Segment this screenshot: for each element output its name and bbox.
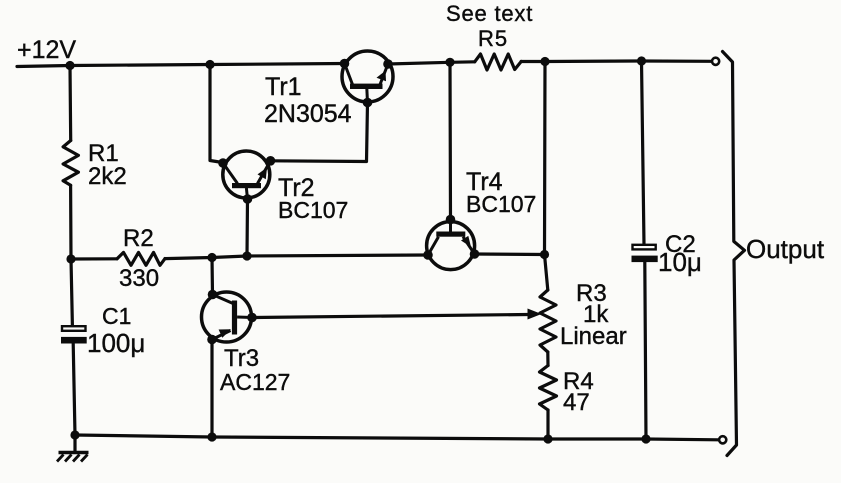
transistor Tr3 AC127 bbox=[202, 292, 253, 342]
svg-text:Tr1: Tr1 bbox=[265, 73, 302, 101]
wire Tr1 base down and left to Tr2 emitter bbox=[271, 103, 368, 162]
transistor Tr2 BC107 bbox=[223, 151, 271, 199]
wire R1 bottom to R2 node bbox=[69, 185, 73, 259]
node rail / C2 bbox=[637, 56, 646, 65]
node Tr4 base bbox=[446, 215, 456, 225]
node Tr2 emitter bbox=[266, 156, 276, 166]
node Tr4 emitter bbox=[470, 249, 480, 259]
wire R5 right junction down to Tr4 emitter node bbox=[543, 62, 547, 255]
wire R3 bottom to R4 top bbox=[546, 352, 549, 366]
wire output bracket right side bbox=[723, 52, 745, 456]
wire Tr3 emitter down to bottom rail bbox=[210, 340, 213, 438]
wire top rail right section (Tr1 emitter to R5) bbox=[388, 62, 475, 64]
svg-text:See text: See text bbox=[446, 1, 533, 26]
wire left vertical +12V to R1 bbox=[68, 66, 72, 141]
output terminal top bbox=[712, 58, 719, 65]
node R2 / Tr3 bbox=[207, 253, 216, 262]
wire R5 right to output terminal bbox=[521, 59, 711, 63]
svg-text:+12V: +12V bbox=[17, 36, 76, 64]
svg-text:330: 330 bbox=[119, 265, 159, 292]
node R3 top bbox=[540, 250, 549, 259]
resistor R5 bbox=[475, 54, 522, 70]
node bottom / Tr3 bbox=[207, 432, 216, 441]
node Tr4 collector bbox=[423, 250, 433, 260]
svg-text:47: 47 bbox=[563, 389, 590, 416]
wire ground stub bbox=[73, 435, 76, 452]
capacitor C2 bbox=[632, 245, 658, 262]
svg-text:AC127: AC127 bbox=[220, 369, 290, 395]
node R5 right bbox=[540, 57, 549, 66]
node Tr3 emitter bbox=[207, 335, 217, 345]
svg-text:Linear: Linear bbox=[560, 323, 627, 350]
transistor Tr4 BC107 bbox=[427, 220, 475, 270]
node Tr3 collector bbox=[208, 290, 218, 300]
resistor R1 bbox=[63, 141, 78, 186]
ground symbol bbox=[57, 453, 89, 462]
wire bottom rail bbox=[75, 435, 718, 440]
wire +12V top rail left section bbox=[17, 64, 345, 67]
node bottom / R4 bbox=[543, 434, 552, 443]
node Tr2 collector bbox=[218, 158, 228, 168]
node Tr1 collector bbox=[340, 59, 350, 69]
node R2 / Tr2 base bbox=[242, 251, 251, 260]
wire C1 bottom to ground rail bbox=[73, 344, 75, 436]
transistor Tr1 2N3054 bbox=[342, 51, 393, 103]
svg-text:R2: R2 bbox=[123, 225, 154, 252]
resistor R3 potentiometer body bbox=[540, 290, 556, 352]
wire rail junction down to Tr4 base bbox=[448, 62, 452, 219]
node Tr1 emitter bbox=[383, 59, 393, 69]
R3 wiper arrowhead bbox=[528, 309, 542, 320]
wire Tr3 base to R3 wiper bbox=[252, 315, 528, 318]
svg-text:2k2: 2k2 bbox=[88, 163, 127, 190]
node Tr3 base bbox=[247, 313, 257, 323]
node bottom / C2 bbox=[641, 434, 650, 443]
svg-text:BC107: BC107 bbox=[466, 191, 536, 217]
wire Tr4 emitter node down to R3 bbox=[545, 255, 548, 291]
resistor R4 bbox=[540, 366, 557, 411]
node rail / Tr4 base feed bbox=[445, 58, 454, 67]
svg-text:C1: C1 bbox=[102, 303, 131, 329]
node +12V / R1 bbox=[65, 61, 74, 70]
wire top rail junction down to Tr2 collector bbox=[210, 65, 223, 163]
node R2 left bbox=[66, 254, 75, 263]
wire R2 node to R2 left lead bbox=[71, 257, 117, 260]
node rail / Tr2 feed bbox=[205, 60, 214, 69]
svg-text:BC107: BC107 bbox=[278, 197, 348, 223]
wire R2 node down to Tr3 collector bbox=[210, 258, 214, 295]
wire C2 bottom to bottom rail bbox=[645, 262, 646, 439]
svg-text:10μ: 10μ bbox=[658, 247, 702, 277]
wire Tr2 base down to R2 line bbox=[245, 199, 249, 256]
wire R4 bottom to bottom rail bbox=[546, 410, 549, 439]
wire rail junction down to C2 bbox=[642, 61, 645, 244]
svg-text:2N3054: 2N3054 bbox=[264, 100, 352, 128]
svg-text:Output: Output bbox=[746, 234, 825, 264]
node ground rail left bbox=[70, 430, 79, 439]
node Tr2 base bbox=[243, 194, 253, 204]
svg-text:100μ: 100μ bbox=[87, 328, 145, 358]
resistor R2 bbox=[117, 252, 165, 265]
wire R2 right to Tr4 collector bbox=[165, 255, 428, 259]
capacitor C1 bbox=[61, 326, 87, 343]
node Tr1 base bbox=[363, 98, 373, 108]
wire R2 node down to C1 bbox=[71, 259, 72, 326]
svg-text:R5: R5 bbox=[478, 26, 508, 51]
svg-text:Tr3: Tr3 bbox=[224, 345, 259, 372]
wire Tr4 emitter to R3 top node bbox=[475, 252, 545, 256]
output terminal bottom bbox=[719, 436, 726, 443]
